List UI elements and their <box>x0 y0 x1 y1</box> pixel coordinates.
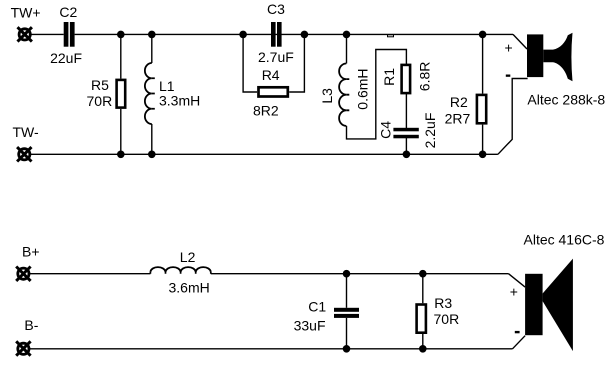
svg-text:+: + <box>510 284 518 300</box>
wire L2 to speaker diagonal <box>211 273 509 275</box>
speaker LS1 driver body <box>527 34 543 77</box>
junction node L3 top <box>343 31 351 39</box>
speaker LS1 horn <box>543 33 572 82</box>
wire R5 branch lower <box>120 109 122 154</box>
wire C1 branch lower <box>346 318 348 349</box>
wire B+ to L2 <box>30 273 150 275</box>
wire L3 bottom to R1 top loop <box>347 50 407 139</box>
junction node L1 bottom <box>148 151 156 159</box>
label speaker LS1 minus pin <box>506 75 511 77</box>
wire diagonal to speaker LS2 plus <box>509 274 526 287</box>
svg-text:L3: L3 <box>319 88 335 104</box>
svg-text:6.8R: 6.8R <box>416 62 432 92</box>
svg-text:R2: R2 <box>450 94 468 110</box>
wire top rail x152 to x513 <box>152 33 513 35</box>
junction node C1 bottom <box>343 345 351 353</box>
wire diagonal to speaker LS2 minus <box>513 336 526 349</box>
capacitor C2 <box>64 22 75 47</box>
resistor R3 <box>417 305 426 333</box>
wire R5 branch upper <box>120 34 122 78</box>
wire L3 branch upper <box>346 34 348 63</box>
svg-text:70R: 70R <box>434 311 460 327</box>
inductor L3 <box>339 64 346 126</box>
wire bottom rail TW- to diagonal <box>31 153 498 155</box>
wire L1 branch lower <box>151 124 153 154</box>
terminal TW+ <box>18 27 32 41</box>
speaker LS2 driver body <box>525 274 543 335</box>
resistor R5 <box>117 80 126 108</box>
junction node R2 bottom <box>479 151 487 159</box>
svg-text:22uF: 22uF <box>50 50 82 66</box>
svg-text:2.7uF: 2.7uF <box>258 49 294 65</box>
svg-text:L1: L1 <box>159 78 175 94</box>
svg-text:B+: B+ <box>22 244 40 260</box>
wire C4 bottom to rail <box>405 138 407 155</box>
svg-text:C3: C3 <box>267 1 285 17</box>
junction node C3/R4 left <box>239 31 247 39</box>
resistor R2 <box>477 95 486 123</box>
terminal B- <box>16 341 30 355</box>
svg-text:2R7: 2R7 <box>445 110 471 126</box>
svg-text:R1: R1 <box>381 68 397 86</box>
svg-text:0.6mH: 0.6mH <box>355 68 371 109</box>
svg-text:Altec 288k-8: Altec 288k-8 <box>527 91 605 107</box>
svg-text:TW+: TW+ <box>11 5 41 21</box>
wire C2 to node at x121 <box>75 33 152 35</box>
wire R4 loop right <box>289 34 304 92</box>
inductor L2 <box>150 267 210 272</box>
svg-text:Altec 416C-8: Altec 416C-8 <box>524 232 605 248</box>
svg-text:TW-: TW- <box>13 124 40 140</box>
junction node C1 top <box>343 270 351 278</box>
resistor R1 <box>402 65 411 93</box>
label speaker LS2 minus pin <box>515 331 520 333</box>
svg-text:L2: L2 <box>180 249 196 265</box>
svg-text:+: + <box>505 39 513 55</box>
svg-text:C2: C2 <box>59 4 77 20</box>
capacitor C4 <box>393 128 418 139</box>
wire R2 branch upper <box>482 34 484 93</box>
svg-text:70R: 70R <box>87 93 113 109</box>
junction node R5 top <box>117 31 125 39</box>
inductor L3 cusp nubs <box>346 79 349 110</box>
wire C1 branch upper <box>346 274 348 308</box>
svg-text:3.6mH: 3.6mH <box>169 279 210 295</box>
junction node R2 top <box>479 31 487 39</box>
wire R2 branch lower <box>482 125 484 155</box>
svg-text:8R2: 8R2 <box>253 103 279 119</box>
junction node C4 bottom <box>403 151 411 159</box>
junction node R5 bottom <box>117 151 125 159</box>
inductor L1 cusp nubs <box>152 78 155 109</box>
junction node C3/R4 right <box>301 31 309 39</box>
svg-text:R3: R3 <box>434 295 452 311</box>
speaker LS2 cone <box>543 259 573 352</box>
wire R1 bottom to C4 top <box>405 94 407 128</box>
wire R3 branch lower <box>422 334 424 349</box>
svg-text:3.3mH: 3.3mH <box>159 93 200 109</box>
wire B- bottom rail <box>30 348 513 350</box>
junction node R3 top <box>419 270 427 278</box>
svg-text:B-: B- <box>24 317 38 333</box>
wire speaker LS1 minus return <box>498 79 528 155</box>
svg-text:R4: R4 <box>262 67 280 83</box>
inductor L2 cusp nubs <box>150 272 210 274</box>
resistor R4 <box>259 87 288 96</box>
wire diagonal to speaker LS1 plus <box>513 34 527 49</box>
svg-text:33uF: 33uF <box>294 318 326 334</box>
artifact mark below top rail <box>388 35 394 37</box>
wire TW+ to C2 <box>32 33 64 35</box>
wire R4 loop left <box>243 34 257 92</box>
svg-text:C1: C1 <box>308 299 326 315</box>
terminal TW- <box>17 147 31 161</box>
svg-text:C4: C4 <box>378 121 394 139</box>
junction node R3 bottom <box>419 345 427 353</box>
svg-text:2.2uF: 2.2uF <box>422 113 438 149</box>
capacitor C3 <box>271 22 282 47</box>
wire L1 branch upper <box>151 34 153 63</box>
terminal B+ <box>16 267 30 281</box>
capacitor C1 <box>334 308 359 318</box>
junction node L1 top <box>148 31 156 39</box>
svg-text:R5: R5 <box>91 77 109 93</box>
inductor L1 <box>145 63 152 124</box>
wire R3 branch upper <box>422 274 424 304</box>
